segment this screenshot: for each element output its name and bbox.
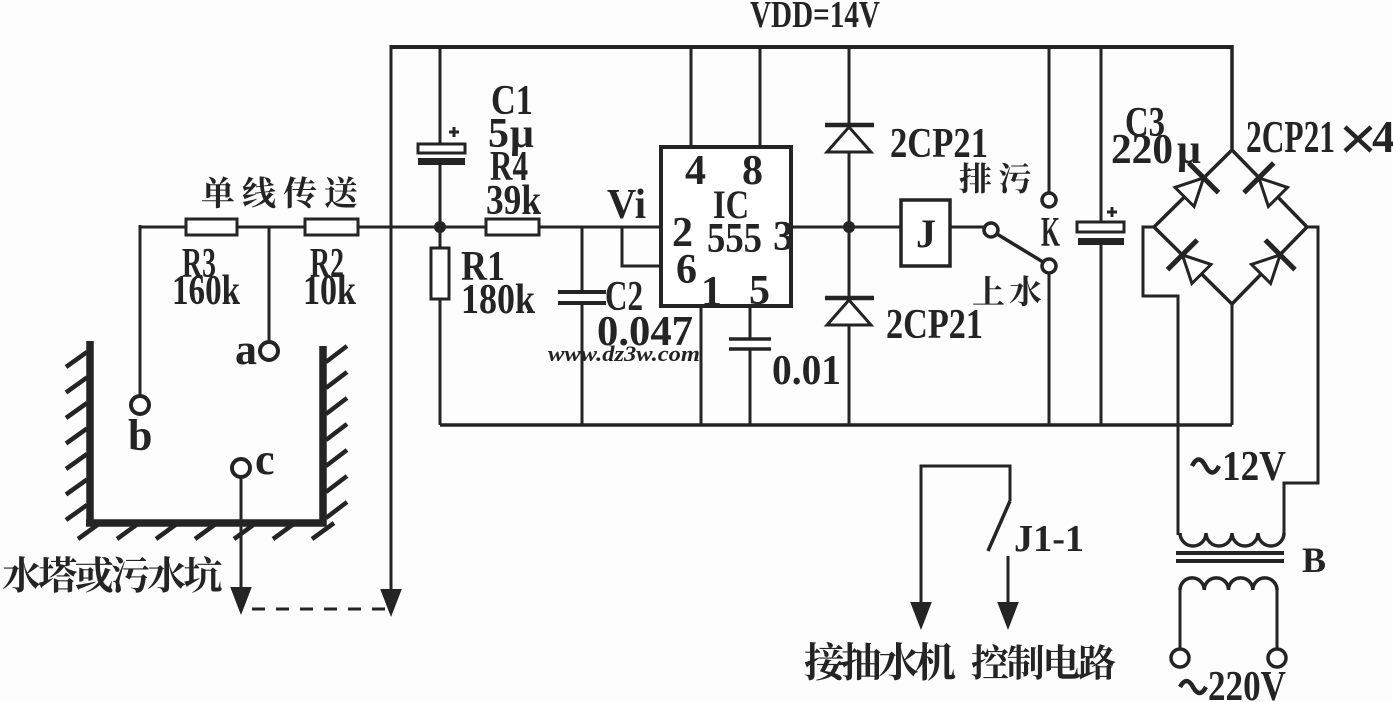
svg-text:2CP21: 2CP21 — [886, 302, 983, 348]
svg-text:J1-1: J1-1 — [1014, 518, 1084, 560]
svg-text:2CP21: 2CP21 — [1246, 111, 1335, 162]
svg-text:1: 1 — [701, 269, 722, 315]
svg-text:10k: 10k — [303, 268, 357, 314]
svg-text:0.01: 0.01 — [772, 348, 841, 394]
svg-text:160k: 160k — [172, 268, 241, 314]
svg-text:a: a — [235, 325, 257, 374]
svg-text:Vi: Vi — [607, 182, 646, 228]
svg-text:220V: 220V — [1208, 664, 1286, 702]
svg-text:5: 5 — [749, 268, 770, 314]
svg-text:K: K — [1041, 210, 1060, 256]
svg-text:c: c — [255, 435, 275, 484]
svg-text:μ: μ — [1177, 127, 1201, 173]
svg-text:VDD=14V: VDD=14V — [750, 0, 880, 36]
svg-text:4: 4 — [1372, 111, 1393, 162]
svg-text:3: 3 — [773, 214, 794, 260]
svg-text:220: 220 — [1111, 127, 1173, 173]
svg-text:2CP21: 2CP21 — [890, 121, 988, 167]
svg-text:12V: 12V — [1222, 444, 1286, 490]
svg-text:555: 555 — [707, 216, 762, 262]
svg-text:b: b — [128, 411, 152, 460]
svg-text:180k: 180k — [461, 277, 536, 323]
svg-text:B: B — [1302, 540, 1326, 580]
svg-text:6: 6 — [676, 247, 697, 293]
svg-text:www.dz3w.com: www.dz3w.com — [548, 341, 700, 366]
svg-text:J: J — [916, 211, 936, 256]
svg-text:4: 4 — [685, 148, 706, 194]
svg-text:39k: 39k — [486, 178, 542, 224]
